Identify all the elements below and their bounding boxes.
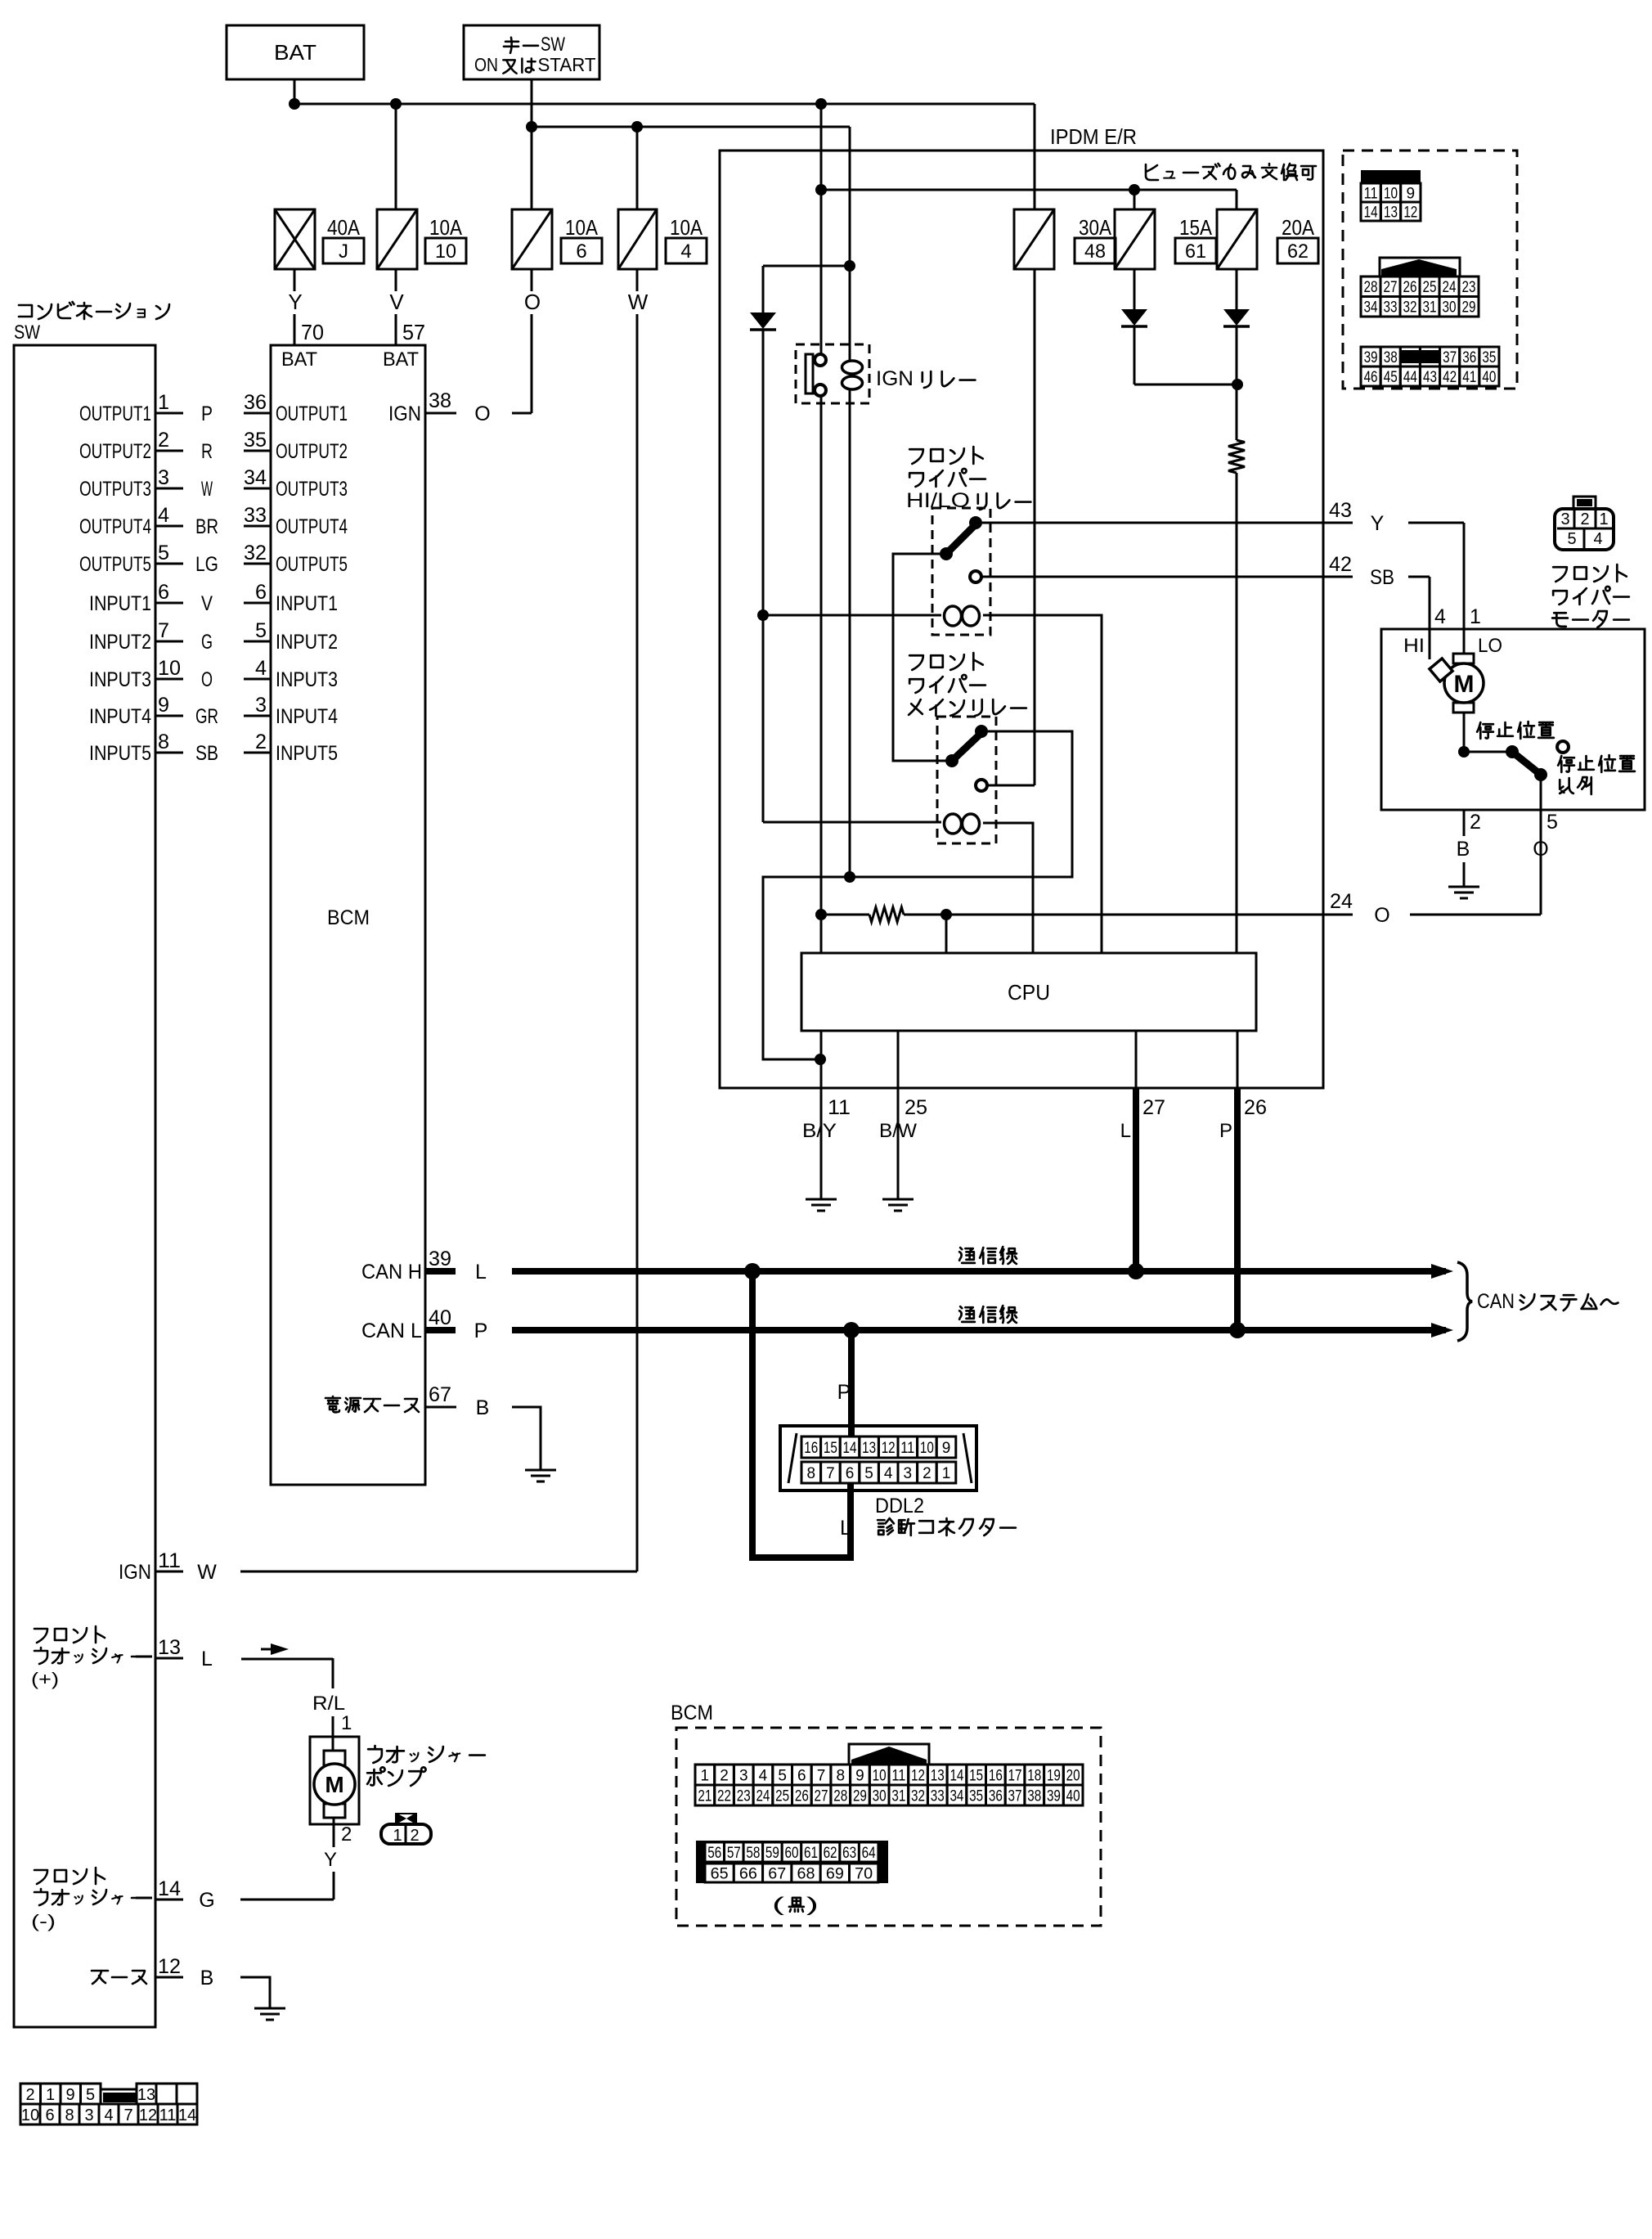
bus wire from BAT (294, 103, 1035, 106)
svg-text:5: 5 (1547, 811, 1558, 834)
svg-text:2: 2 (25, 2086, 34, 2104)
label front wiper HI/LO relay (909, 447, 983, 464)
svg-text:OUTPUT2: OUTPUT2 (79, 440, 151, 463)
svg-text:2: 2 (255, 731, 267, 753)
svg-text:29: 29 (853, 1787, 867, 1805)
svg-text:35: 35 (1482, 349, 1496, 366)
CAN L trunk line (512, 1327, 1446, 1333)
svg-text:1: 1 (942, 1465, 951, 1482)
svg-text:B: B (200, 1967, 214, 1989)
svg-text:9: 9 (942, 1440, 951, 1457)
ground motor (1448, 886, 1479, 888)
svg-text:L: L (1120, 1120, 1131, 1142)
junction IGN coil diode branch (844, 260, 855, 272)
svg-text:10: 10 (21, 2106, 39, 2124)
svg-text:CPU: CPU (1008, 980, 1050, 1005)
svg-text:13: 13 (137, 2086, 155, 2104)
fuse 62 20A (1217, 209, 1257, 269)
wire resistor to CPU (1236, 473, 1238, 953)
svg-text:GR: GR (195, 705, 218, 728)
svg-text:48: 48 (1084, 241, 1106, 263)
motor M1 (1430, 654, 1484, 713)
svg-text:OUTPUT3: OUTPUT3 (276, 478, 348, 501)
svg-text:17: 17 (1008, 1767, 1022, 1784)
svg-text:7: 7 (817, 1767, 826, 1784)
main relay NC contact (976, 780, 987, 791)
svg-text:L: L (201, 1648, 213, 1670)
svg-text:CAN H: CAN H (361, 1261, 422, 1284)
junction IGN coil to loop (844, 871, 855, 883)
wire keySW down to fuse 6 (531, 79, 533, 209)
svg-text:10: 10 (1384, 185, 1398, 202)
svg-text:SW: SW (14, 321, 40, 344)
svg-text:4: 4 (158, 504, 169, 527)
svg-text:32: 32 (1403, 299, 1417, 317)
svg-text:34: 34 (244, 466, 267, 489)
svg-text:BCM: BCM (327, 906, 370, 929)
svg-text:J: J (339, 241, 348, 263)
wire fuse 61 diode (1134, 269, 1136, 309)
junction BAT bus (289, 98, 300, 110)
resistor R1 (1228, 440, 1245, 473)
main relay pivot (945, 754, 958, 767)
junction CPU sense (940, 909, 952, 920)
svg-text:OUTPUT5: OUTPUT5 (276, 553, 348, 576)
junction resistor branch (815, 909, 827, 920)
svg-text:35: 35 (244, 429, 267, 452)
svg-text:INPUT4: INPUT4 (89, 705, 151, 728)
junction V-fuse branch (390, 98, 402, 110)
CPU pin 27 wire CAN-H (1135, 1031, 1138, 1088)
svg-text:INPUT2: INPUT2 (276, 631, 338, 654)
wire main NC stub (986, 785, 1035, 787)
svg-text:12: 12 (158, 1955, 181, 1978)
svg-text:24: 24 (1330, 890, 1353, 913)
svg-text:P: P (201, 402, 213, 425)
svg-text:27: 27 (1142, 1096, 1165, 1119)
svg-text:9: 9 (65, 2086, 74, 2104)
svg-text:5: 5 (778, 1767, 787, 1784)
svg-text:35: 35 (969, 1787, 983, 1805)
svg-text:8: 8 (65, 2106, 74, 2124)
IPDM E/R box (720, 151, 1323, 1088)
svg-text:16: 16 (804, 1440, 818, 1457)
label stop position (1477, 722, 1554, 739)
svg-text:31: 31 (891, 1787, 905, 1805)
HI/LO relay common contact (969, 516, 982, 529)
svg-text:58: 58 (746, 1845, 760, 1862)
svg-text:8: 8 (807, 1465, 816, 1482)
wire pin 12 to ground (240, 1977, 270, 2008)
svg-text:25: 25 (775, 1787, 789, 1805)
svg-text:10: 10 (873, 1767, 887, 1784)
junction diodes (1232, 379, 1243, 390)
svg-text:6: 6 (45, 2106, 54, 2124)
fuse 61 15A (1115, 209, 1155, 269)
svg-text:Y: Y (1371, 512, 1385, 535)
svg-text:26: 26 (1403, 279, 1417, 296)
svg-text:40A: 40A (327, 215, 361, 240)
wire W from fuse 4 down to combination switch IGN (636, 269, 639, 291)
svg-text:23: 23 (737, 1787, 751, 1805)
svg-text:4: 4 (1434, 605, 1446, 628)
svg-text:5: 5 (864, 1465, 873, 1482)
wire feed to fuses 61 62 (821, 189, 1237, 191)
svg-text:30: 30 (873, 1787, 887, 1805)
svg-text:7: 7 (123, 2106, 132, 2124)
svg-text:57: 57 (402, 320, 425, 344)
motor connector pinout (1555, 497, 1614, 550)
DDL2 diagnostic connector (780, 1426, 976, 1490)
svg-text:24: 24 (1443, 279, 1457, 296)
svg-text:13: 13 (1384, 204, 1398, 221)
bus wire 2 from keySW (532, 126, 850, 128)
main relay coil (945, 814, 980, 834)
svg-text:57: 57 (727, 1845, 741, 1862)
svg-text:O: O (1374, 904, 1389, 927)
svg-text:1: 1 (1470, 605, 1481, 628)
svg-text:30A: 30A (1079, 215, 1112, 240)
IGN relay switch output down (820, 395, 823, 953)
park switch pivot (1534, 768, 1547, 781)
svg-text:21: 21 (698, 1787, 712, 1805)
HI/LO relay pivot (940, 547, 953, 560)
svg-text:2: 2 (1580, 510, 1589, 528)
svg-text:30: 30 (1443, 299, 1457, 317)
svg-text:67: 67 (768, 1865, 786, 1882)
svg-text:SB: SB (1370, 566, 1394, 589)
svg-text:2: 2 (158, 429, 169, 452)
svg-text:P: P (474, 1320, 488, 1342)
svg-text:INPUT5: INPUT5 (276, 742, 338, 765)
svg-text:32: 32 (911, 1787, 925, 1805)
wire IGN to W line (240, 1571, 637, 1573)
svg-text:INPUT3: INPUT3 (89, 668, 151, 691)
svg-text:3: 3 (158, 466, 169, 489)
svg-text:24: 24 (756, 1787, 770, 1805)
BCM connector B rows 56-70 (696, 1841, 888, 1883)
svg-text:13: 13 (931, 1767, 945, 1784)
svg-text:70: 70 (855, 1865, 873, 1882)
svg-text:44: 44 (1403, 369, 1417, 386)
svg-text:11: 11 (1364, 185, 1378, 202)
svg-text:2: 2 (341, 1823, 352, 1846)
svg-text:25: 25 (1423, 279, 1437, 296)
connector F mid (1361, 258, 1479, 317)
svg-text:22: 22 (717, 1787, 731, 1805)
park switch arm (1512, 752, 1541, 775)
svg-text:36: 36 (244, 391, 267, 414)
IGN relay contact top (815, 354, 826, 366)
power source BAT box (227, 25, 364, 79)
svg-text:26: 26 (1244, 1096, 1267, 1119)
svg-text:10: 10 (158, 657, 181, 680)
svg-text:46: 46 (1364, 369, 1378, 386)
CPU pin 25 wire to ground (897, 1031, 900, 1199)
svg-text:B: B (1457, 838, 1470, 861)
svg-text:14: 14 (1364, 204, 1378, 221)
svg-text:12: 12 (882, 1440, 896, 1457)
wire LO to motor (1463, 629, 1466, 654)
svg-text:1: 1 (341, 1712, 352, 1734)
svg-text:11: 11 (158, 1549, 181, 1572)
svg-text:39: 39 (429, 1248, 451, 1270)
svg-text:G: G (199, 1889, 214, 1912)
junction CAN L pin 26 (1229, 1322, 1246, 1338)
svg-text:10: 10 (435, 241, 456, 263)
wire IGN relay coil branch to diode (763, 265, 850, 268)
svg-text:56: 56 (707, 1845, 721, 1862)
svg-text:10: 10 (920, 1440, 934, 1457)
svg-text:14: 14 (843, 1440, 857, 1457)
svg-text:42: 42 (1329, 553, 1352, 576)
junction CAN H to DDL2 (744, 1263, 761, 1279)
svg-text:14: 14 (158, 1877, 181, 1900)
svg-text:5: 5 (1567, 530, 1576, 548)
main relay arm (952, 733, 981, 761)
svg-text:1: 1 (393, 1827, 402, 1845)
svg-text:CAN L: CAN L (361, 1320, 422, 1342)
svg-text:15: 15 (969, 1767, 983, 1784)
junction loop to pin11 wire (815, 1054, 826, 1065)
BCM connector dashed box (676, 1728, 1101, 1926)
svg-text:1: 1 (158, 391, 169, 414)
wire O from fuse 6 to BCM pin 38 (531, 269, 533, 291)
svg-text:B: B (476, 1396, 490, 1419)
svg-text:15: 15 (824, 1440, 837, 1457)
svg-text:7: 7 (158, 619, 169, 642)
svg-text:5: 5 (255, 619, 267, 642)
svg-text:10A: 10A (565, 215, 599, 240)
label communication line 2 (959, 1306, 1017, 1323)
CAN H trunk line (512, 1268, 1446, 1275)
svg-text:R: R (201, 440, 213, 463)
diode D3 (1223, 309, 1250, 326)
fuse J 40A (275, 209, 315, 269)
svg-text:37: 37 (1008, 1787, 1022, 1805)
wire V fuse feed (395, 104, 397, 209)
svg-text:14: 14 (949, 1767, 963, 1784)
CPU pin 11 wire to ground (820, 1031, 823, 1199)
svg-text:OUTPUT5: OUTPUT5 (79, 553, 151, 576)
svg-text:1: 1 (1599, 510, 1608, 528)
HI/LO relay arm (946, 524, 976, 554)
IPDM connector pinout dashed box (1343, 151, 1517, 389)
svg-text:BAT: BAT (281, 348, 317, 371)
wire to washer pump pin 1 (332, 1658, 334, 1688)
svg-text:IGN: IGN (388, 402, 421, 425)
svg-text:13: 13 (158, 1636, 181, 1659)
svg-text:36: 36 (1462, 349, 1476, 366)
wire HI/LO pivot to main relay pivot (893, 554, 945, 761)
svg-text:W: W (628, 290, 649, 314)
svg-text:65: 65 (711, 1865, 729, 1882)
svg-text:OUTPUT4: OUTPUT4 (79, 515, 151, 538)
fuse 10 10A (377, 209, 417, 269)
svg-text:9: 9 (158, 694, 169, 717)
BCM connector A rows 1-40 (695, 1744, 1083, 1805)
combination switch box (14, 345, 155, 2027)
svg-text:12: 12 (1403, 204, 1417, 221)
BCM box (271, 345, 425, 1485)
svg-text:4: 4 (104, 2106, 113, 2124)
IGN relay box (796, 344, 869, 403)
svg-text:O: O (474, 402, 490, 425)
svg-text:15A: 15A (1179, 215, 1213, 240)
combination switch label (19, 302, 169, 319)
park switch open contact (1557, 741, 1569, 753)
svg-text:36: 36 (989, 1787, 1003, 1805)
svg-text:BCM: BCM (671, 1702, 713, 1724)
svg-text:BAT: BAT (274, 40, 316, 65)
svg-text:M: M (1454, 671, 1475, 698)
wire IGN relay switch feed (820, 104, 823, 357)
diode D2 (1121, 309, 1147, 326)
wire diode down to relay coils (762, 330, 765, 822)
svg-text:67: 67 (429, 1383, 451, 1406)
svg-text:8: 8 (836, 1767, 845, 1784)
junction motor bottom (1458, 746, 1470, 758)
svg-text:BAT: BAT (383, 348, 419, 371)
svg-text:START: START (538, 54, 596, 75)
svg-text:11: 11 (900, 1440, 914, 1457)
svg-text:9: 9 (1407, 185, 1416, 202)
svg-text:(+): (+) (31, 1669, 59, 1689)
svg-text:DDL2: DDL2 (875, 1495, 924, 1517)
svg-text:): ) (806, 1894, 819, 1916)
junction HI/LO coil feed (757, 609, 769, 621)
connector G lower (1361, 347, 1499, 386)
svg-text:3: 3 (739, 1767, 748, 1784)
label communication line 1 (959, 1247, 1017, 1264)
wire DDL2 P to CAN L (848, 1330, 855, 1437)
svg-text:68: 68 (797, 1865, 815, 1882)
svg-text:66: 66 (739, 1865, 757, 1882)
wire fuse62 feed (1236, 190, 1238, 209)
svg-text:11: 11 (159, 2106, 177, 2124)
svg-text:34: 34 (949, 1787, 963, 1805)
svg-text:6: 6 (576, 241, 586, 263)
label other than stop position (1558, 755, 1635, 772)
wire fuse61 feed (1134, 190, 1136, 209)
svg-text:4: 4 (884, 1465, 893, 1482)
svg-text:10A: 10A (429, 215, 463, 240)
svg-text:33: 33 (931, 1787, 945, 1805)
svg-text:5: 5 (158, 542, 169, 564)
svg-text:40: 40 (1482, 369, 1496, 386)
svg-text:INPUT1: INPUT1 (276, 592, 338, 615)
svg-text:1: 1 (701, 1767, 710, 1784)
wire main relay contact loop to pin11 net (763, 731, 1072, 1059)
wire pin 67 to ground (512, 1407, 541, 1470)
svg-text:45: 45 (1384, 369, 1398, 386)
wire to main relay coil (763, 821, 941, 824)
key switch box (464, 25, 599, 79)
HI/LO relay NC contact (970, 571, 981, 582)
fuse 4 10A (618, 209, 657, 269)
svg-text:38: 38 (1027, 1787, 1041, 1805)
main relay common contact (975, 725, 988, 738)
svg-text:62: 62 (1287, 241, 1309, 263)
wire V from fuse 10 to BCM pin 57 (395, 269, 397, 291)
wire washer+ with arrow (241, 1658, 333, 1661)
svg-text:W: W (197, 1561, 217, 1584)
svg-text:69: 69 (826, 1865, 844, 1882)
svg-text:Y: Y (288, 290, 302, 314)
svg-text:20: 20 (1066, 1767, 1080, 1784)
svg-text:3: 3 (255, 694, 267, 717)
svg-text:14: 14 (178, 2106, 196, 2124)
svg-text:39: 39 (1364, 349, 1378, 366)
svg-text:2: 2 (1470, 811, 1481, 834)
BCM pin 67 power ground (325, 1396, 419, 1412)
svg-text:R/L: R/L (312, 1693, 345, 1715)
svg-text:SW: SW (541, 34, 565, 56)
svg-text:HI: HI (1403, 635, 1425, 657)
svg-text:6: 6 (158, 581, 169, 604)
svg-text:W: W (201, 478, 213, 501)
wire Y from fuse J to BCM pin 70 (294, 269, 296, 291)
svg-text:41: 41 (1462, 369, 1476, 386)
svg-text:34: 34 (1364, 299, 1378, 317)
combination SW pin 12 ground (92, 1971, 146, 1984)
svg-text:2: 2 (923, 1465, 931, 1482)
wire HI/LO coil to CPU (983, 615, 1102, 953)
label front wiper main relay (909, 653, 983, 670)
svg-text:61: 61 (1185, 241, 1206, 263)
svg-text:V: V (201, 592, 213, 615)
svg-text:12: 12 (911, 1767, 925, 1784)
svg-text:B/Y: B/Y (802, 1120, 837, 1142)
svg-text:M: M (325, 1772, 343, 1797)
fuse 48 30A (1014, 209, 1054, 269)
svg-text:20A: 20A (1282, 215, 1315, 240)
svg-text:3: 3 (84, 2106, 93, 2124)
IGN relay armature (806, 354, 813, 393)
svg-text:28: 28 (1364, 279, 1378, 296)
svg-text:2: 2 (720, 1767, 729, 1784)
ground pin 25 (882, 1198, 914, 1201)
park switch stop-position contact line (1464, 751, 1512, 753)
wire motor bottom (1463, 713, 1466, 752)
svg-text:18: 18 (1027, 1767, 1041, 1784)
svg-text:33: 33 (1384, 299, 1398, 317)
wire park switch to pin 5 (1540, 775, 1542, 810)
svg-text:CAN: CAN (1477, 1290, 1515, 1313)
svg-text:IGN: IGN (876, 367, 914, 390)
svg-text:38: 38 (429, 389, 451, 412)
svg-text:43: 43 (1329, 499, 1352, 522)
svg-text:60: 60 (784, 1845, 798, 1862)
svg-text:11: 11 (828, 1096, 851, 1119)
svg-text:11: 11 (891, 1767, 905, 1784)
svg-text:64: 64 (862, 1845, 876, 1862)
CPU box (801, 953, 1256, 1031)
svg-text:40: 40 (1066, 1787, 1080, 1805)
svg-text:3: 3 (1560, 510, 1569, 528)
wire DDL2 L to CAN H (752, 1271, 851, 1558)
svg-text:59: 59 (765, 1845, 779, 1862)
svg-text:INPUT5: INPUT5 (89, 742, 151, 765)
svg-text:LO: LO (1478, 635, 1502, 657)
svg-text:1: 1 (46, 2086, 55, 2104)
svg-text:5: 5 (86, 2086, 95, 2104)
svg-text:63: 63 (842, 1845, 856, 1862)
svg-text:OUTPUT3: OUTPUT3 (79, 478, 151, 501)
flow direction arrow (261, 1648, 272, 1651)
combination SW pin 14 washer- (34, 1868, 105, 1884)
svg-text:IGN: IGN (119, 1561, 151, 1584)
